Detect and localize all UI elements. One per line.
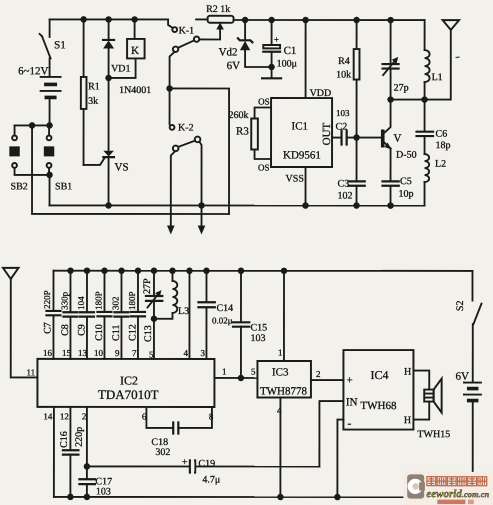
svg-text:H: H — [404, 367, 411, 378]
svg-text:C11: C11 — [111, 325, 122, 341]
svg-text:TDA7010T: TDA7010T — [98, 387, 159, 402]
capacitor C1 100u — [263, 20, 297, 78]
thyristor VS — [84, 78, 129, 206]
svg-text:L3: L3 — [178, 306, 189, 317]
svg-text:C19: C19 — [198, 458, 215, 469]
pin VSS of IC1 — [286, 167, 306, 206]
svg-text:18p: 18p — [436, 140, 451, 151]
svg-text:R2 1k: R2 1k — [206, 4, 230, 15]
svg-text:OS: OS — [258, 163, 270, 173]
battery 6~12V — [18, 65, 61, 125]
svg-text:D-50: D-50 — [396, 150, 417, 161]
svg-text:180P: 180P — [93, 291, 103, 310]
svg-text:5: 5 — [251, 367, 256, 377]
speaker TWH15 — [417, 379, 450, 441]
node K-1 branch dot — [166, 85, 173, 92]
svg-text:K-2: K-2 — [178, 122, 194, 133]
svg-text:C7: C7 — [42, 322, 53, 334]
svg-text:C16: C16 — [59, 431, 70, 448]
svg-text:C2: C2 — [336, 122, 348, 133]
svg-text:C8: C8 — [60, 324, 71, 336]
svg-text:VS: VS — [115, 161, 129, 173]
svg-text:C5: C5 — [400, 176, 412, 187]
wire H top to speaker — [413, 371, 429, 390]
wire IC3 pin2 to IC4 — [311, 369, 344, 380]
svg-text:302: 302 — [155, 447, 170, 458]
zener Vd2 6V — [219, 20, 272, 72]
capacitor C5 10p — [383, 176, 414, 206]
svg-text:L1: L1 — [432, 72, 443, 83]
resistor R3 260k on OS pins — [229, 96, 272, 172]
wire collector rail — [391, 99, 451, 101]
svg-text:C14: C14 — [216, 303, 233, 314]
pin 1 of IC3 — [278, 271, 284, 361]
svg-text:6~12V: 6~12V — [18, 65, 48, 77]
svg-text:27P: 27P — [142, 278, 153, 294]
capacitor C3 102 — [338, 138, 365, 206]
svg-text:IC2: IC2 — [120, 373, 138, 387]
pin 14 column to ground rail — [43, 407, 54, 497]
svg-text:5: 5 — [149, 349, 154, 359]
svg-text:IC4: IC4 — [370, 368, 388, 382]
svg-text:4.7μ: 4.7μ — [202, 474, 220, 485]
svg-text:6V: 6V — [455, 371, 469, 383]
svg-text:103: 103 — [336, 108, 350, 118]
diode VD1 1N4001 — [103, 19, 151, 96]
capacitor C15 103 — [233, 271, 267, 378]
IC2 TDA7010T box — [37, 359, 214, 407]
variable capacitor 27p — [383, 20, 409, 100]
switch S2 — [455, 271, 482, 381]
svg-text:220P: 220P — [42, 290, 52, 309]
relay contact K-1 — [168, 19, 224, 52]
svg-text:10k: 10k — [336, 70, 351, 81]
capacitor C9 104 pin13 — [76, 271, 94, 359]
relay contact K-2 — [170, 88, 201, 151]
svg-text:C9: C9 — [76, 324, 87, 336]
svg-text:L2: L2 — [435, 159, 446, 170]
node base junction — [353, 134, 360, 141]
svg-text:1: 1 — [222, 366, 227, 376]
svg-text:IC3: IC3 — [272, 367, 289, 379]
svg-text:15: 15 — [62, 348, 72, 358]
svg-text:S1: S1 — [54, 39, 66, 51]
svg-text:102: 102 — [338, 191, 353, 202]
svg-text:KD9561: KD9561 — [283, 150, 321, 162]
node C13/L3 junction — [151, 316, 158, 323]
svg-text:TWH8778: TWH8778 — [260, 386, 308, 398]
svg-text:K-1: K-1 — [179, 25, 195, 36]
IC4 TWH68 box — [343, 350, 413, 430]
wire SB2 branch down — [32, 125, 229, 214]
svg-text:16: 16 — [43, 348, 53, 358]
svg-text:11: 11 — [26, 367, 35, 377]
wire receiver top rail — [53, 270, 472, 272]
resistor R4 10k — [336, 20, 359, 138]
antenna transmitter — [443, 20, 460, 100]
node C19 branch — [84, 463, 91, 470]
pin 4 column — [183, 271, 189, 359]
wire H bottom to speaker — [413, 402, 429, 420]
wire C19 line to IN pin — [87, 465, 319, 467]
svg-text:8: 8 — [209, 411, 214, 421]
svg-text:R3: R3 — [236, 125, 249, 137]
capacitor C6 18p — [417, 100, 451, 155]
wire SB1 down to ground rail — [49, 175, 51, 206]
svg-text:4: 4 — [277, 406, 282, 416]
svg-text:3k: 3k — [88, 96, 98, 107]
svg-text:OUT: OUT — [321, 122, 333, 145]
svg-text:+: + — [346, 375, 352, 387]
svg-text:2: 2 — [316, 369, 321, 379]
svg-text:VSS: VSS — [286, 174, 304, 185]
relay coil K — [109, 19, 145, 78]
svg-text:13: 13 — [78, 348, 88, 358]
svg-text:C15: C15 — [250, 323, 267, 334]
resistor R1 3k — [81, 19, 100, 165]
svg-text:C1: C1 — [284, 45, 297, 57]
node top rail junction dots — [80, 16, 87, 23]
inductor L2 — [425, 154, 447, 206]
ground bar under C1 — [262, 77, 281, 79]
svg-text:12: 12 — [60, 411, 69, 421]
svg-text:+: + — [274, 35, 279, 45]
antenna receiver — [3, 268, 38, 378]
node collector rail dots — [387, 96, 394, 103]
wire branch to right vertical — [170, 88, 230, 214]
svg-text:1: 1 — [278, 348, 283, 358]
svg-text:260k: 260k — [229, 110, 249, 121]
wire receiver ground rail — [54, 496, 473, 498]
svg-text:VD1: VD1 — [111, 63, 130, 74]
svg-text:SB2: SB2 — [11, 181, 28, 192]
svg-text:IN: IN — [346, 397, 358, 409]
inductor L1 — [425, 20, 443, 100]
op-amp IC1 KD9561 box — [271, 98, 333, 167]
variable capacitor C13 27P pin5 — [142, 271, 162, 360]
capacitor C11 302 pin9 — [110, 271, 128, 359]
svg-text:OS: OS — [258, 97, 270, 107]
wire top rail left segment — [50, 18, 168, 20]
capacitor C12 180P pin7 — [127, 271, 145, 359]
capacitor C18 302 pins 6-8 — [142, 407, 214, 458]
svg-text:R1: R1 — [88, 81, 100, 92]
wire IC2 pin1 to IC3 pin5 — [214, 366, 257, 378]
node ground rail dots — [67, 494, 74, 501]
svg-text:+: + — [182, 457, 188, 468]
node battery row dots — [29, 122, 36, 129]
switch S1 — [40, 19, 66, 76]
svg-text:9: 9 — [115, 348, 120, 358]
svg-text:103: 103 — [250, 333, 265, 344]
pushbutton SB2 — [9, 125, 49, 192]
stray mark — [456, 56, 460, 59]
svg-text:14: 14 — [43, 411, 53, 421]
svg-text:H: H — [404, 415, 411, 426]
svg-text:C13: C13 — [143, 325, 154, 342]
svg-text:220p: 220p — [74, 427, 85, 447]
svg-text:2: 2 — [82, 411, 87, 421]
svg-text:6V: 6V — [227, 60, 241, 72]
svg-text:SB1: SB1 — [55, 181, 72, 192]
svg-text:1N4001: 1N4001 — [119, 85, 151, 96]
svg-text:R4: R4 — [338, 56, 350, 67]
capacitor C14 0.02u pin3 — [198, 271, 233, 359]
svg-text:C12: C12 — [127, 324, 138, 341]
svg-text:27p: 27p — [394, 83, 409, 94]
eeworld logo stamp — [403, 472, 493, 505]
svg-text:K: K — [131, 45, 139, 57]
svg-text:103: 103 — [96, 486, 111, 497]
pushbutton SB1 — [44, 125, 72, 192]
capacitor C19 4.7u — [182, 457, 220, 486]
capacitor C7 220P pin16 — [42, 271, 61, 359]
wire top rail right segment — [234, 19, 425, 21]
svg-text:-: - — [347, 416, 351, 430]
svg-text:Vd2: Vd2 — [219, 46, 238, 58]
svg-text:10p: 10p — [399, 189, 414, 200]
node receiver rail dots — [67, 267, 74, 274]
capacitor C17 103 pin2 — [79, 407, 112, 498]
capacitor C8 330p pin15 — [59, 271, 77, 359]
node K-2 right on ground rail — [198, 202, 205, 209]
svg-text:180P: 180P — [127, 291, 137, 310]
svg-text:330p: 330p — [59, 291, 69, 310]
wire minus pin to ground — [337, 420, 343, 498]
node C1/Vd2 junction — [268, 64, 275, 71]
transistor V D-50 — [357, 100, 417, 182]
svg-text:IC1: IC1 — [292, 121, 309, 133]
wire top rail middle stub to R2 — [196, 18, 208, 20]
battery 6V receiver — [455, 371, 481, 498]
svg-text:V: V — [394, 133, 402, 145]
node VD1/K junction — [105, 75, 112, 82]
capacitor C2 103 — [332, 108, 357, 145]
svg-text:100μ: 100μ — [277, 59, 297, 70]
wire K-2 left pole to arrow — [167, 151, 175, 234]
svg-text:C10: C10 — [94, 324, 105, 341]
svg-text:VDD: VDD — [310, 88, 332, 99]
svg-text:7: 7 — [132, 348, 137, 358]
svg-text:4: 4 — [183, 348, 188, 358]
svg-text:C3: C3 — [338, 179, 350, 190]
wire K-1 lower contact down — [170, 52, 175, 89]
pin VDD of IC1 — [306, 20, 332, 99]
node C15 on pin1 wire — [238, 375, 245, 382]
svg-text:TWH15: TWH15 — [417, 429, 450, 440]
wire K-2 right pole to arrow — [198, 142, 206, 235]
inductor L3 — [154, 271, 189, 319]
svg-text:S2: S2 — [455, 301, 466, 312]
svg-text:eeworld.com.cn: eeworld.com.cn — [426, 488, 489, 500]
capacitor C10 180p pin10 — [93, 271, 111, 359]
svg-text:6: 6 — [142, 411, 147, 421]
svg-text:302: 302 — [110, 296, 120, 310]
wire transmitter ground rail — [50, 204, 425, 206]
potentiometer R2 1k — [206, 4, 234, 23]
svg-text:3: 3 — [200, 348, 205, 358]
svg-text:0.02μ: 0.02μ — [212, 315, 233, 325]
pin 4 of IC3 to ground — [277, 398, 282, 498]
capacitor C16 220p pin12 — [59, 407, 85, 497]
IC3 TWH8778 box — [257, 361, 311, 398]
wire battery node row — [15, 124, 50, 126]
svg-text:C6: C6 — [436, 129, 448, 140]
node ground rail dots — [105, 202, 112, 209]
svg-text:TWH68: TWH68 — [360, 400, 397, 412]
svg-text:10: 10 — [94, 348, 104, 358]
svg-text:104: 104 — [76, 296, 86, 310]
